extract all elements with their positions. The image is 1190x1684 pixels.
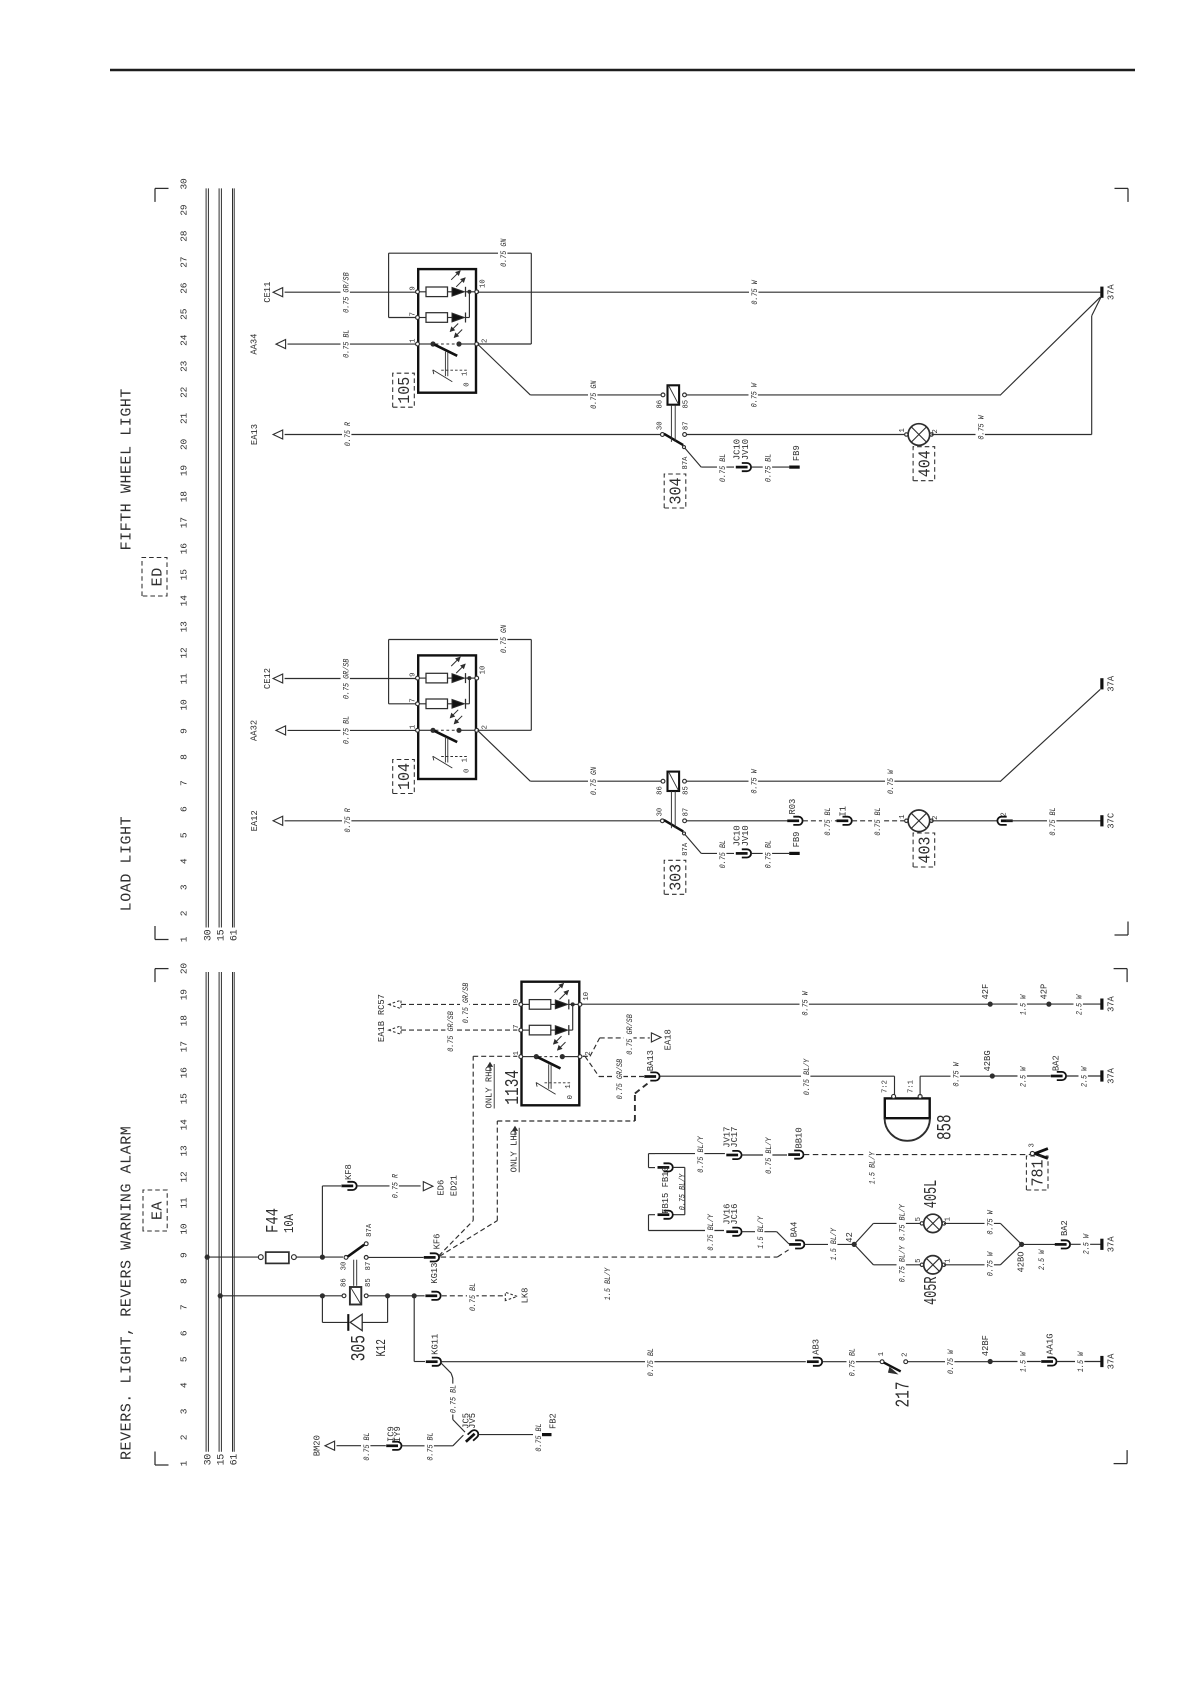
- splice FB9 (thick wire end): [789, 832, 802, 854]
- dashed wire I1 to lamp 403, 0.75 BL: [852, 806, 904, 837]
- svg-text:2: 2: [932, 815, 940, 819]
- svg-text:12: 12: [179, 1171, 190, 1183]
- svg-text:0: 0: [464, 382, 472, 386]
- junction 42F: [981, 984, 993, 1007]
- wire node to connector KF8: [322, 1186, 341, 1257]
- wire 42 to lamp 405R, 0.75 BL/Y: [854, 1244, 920, 1283]
- svg-text:10A: 10A: [282, 1214, 298, 1233]
- svg-text:EA12: EA12: [250, 810, 260, 831]
- svg-text:0.75 R: 0.75 R: [343, 808, 353, 832]
- svg-text:KG13: KG13: [430, 1263, 440, 1284]
- diode of relay 305: [322, 1296, 387, 1331]
- svg-text:EA1B: EA1B: [377, 1021, 387, 1042]
- svg-text:0.75 BL: 0.75 BL: [718, 454, 728, 482]
- svg-text:5: 5: [915, 1258, 923, 1262]
- svg-text:87A: 87A: [366, 1223, 374, 1237]
- svg-text:0.75 BL: 0.75 BL: [362, 1432, 372, 1460]
- svg-text:0.75 W: 0.75 W: [749, 769, 759, 794]
- svg-text:0.75 BL: 0.75 BL: [468, 1283, 478, 1311]
- svg-text:2.5 W: 2.5 W: [1037, 1249, 1047, 1270]
- wire loop pin2 to pin7, 0.75 GN: [389, 624, 532, 731]
- svg-text:KF8: KF8: [344, 1164, 354, 1180]
- svg-text:BA2: BA2: [1052, 1055, 1062, 1071]
- wire 105 pin10 to ground 37A, 0.75 W: [478, 279, 1101, 306]
- wire bus30 to fuse F44: [207, 1256, 258, 1258]
- wire 405R to 42BO, 0.75 W: [944, 1245, 1021, 1278]
- svg-text:25: 25: [179, 308, 190, 320]
- svg-text:JC17: JC17: [730, 1127, 740, 1148]
- svg-text:0.75 W: 0.75 W: [886, 769, 896, 794]
- svg-text:42P: 42P: [1040, 984, 1050, 1000]
- connector AA1G: [1041, 1333, 1056, 1365]
- connector BA2 (405 chain): [1055, 1220, 1070, 1248]
- svg-text:10: 10: [179, 699, 190, 711]
- svg-text:11: 11: [179, 673, 190, 685]
- svg-text:FB2: FB2: [549, 1413, 559, 1429]
- ground 37A (405 chain): [1100, 1239, 1103, 1250]
- svg-text:10: 10: [179, 1223, 190, 1235]
- wire BA2 to ground, 2.5 W: [1066, 1066, 1100, 1089]
- ref box 105: [393, 373, 415, 407]
- wire JC16 to BA4, 1.5 BL/Y: [742, 1215, 789, 1250]
- svg-text:0.75 BL: 0.75 BL: [449, 1385, 459, 1413]
- svg-text:0.75 BL: 0.75 BL: [823, 807, 833, 835]
- svg-text:30: 30: [179, 178, 190, 190]
- svg-text:0.75 R: 0.75 R: [390, 1174, 400, 1198]
- connector JC10 JV10: [733, 439, 752, 471]
- long wire KG11-row to ground 37A, 0.75 BL: [441, 1347, 805, 1378]
- svg-text:1: 1: [899, 428, 907, 432]
- svg-text:0.75 W: 0.75 W: [985, 1210, 995, 1235]
- connector R03: [787, 799, 802, 825]
- continuation arrow EA12: [250, 810, 283, 831]
- connector FB10 with jumper to FB15: [649, 1154, 685, 1215]
- wire horn 858 to 42BG, 0.75 W: [920, 1061, 990, 1095]
- svg-text:0.75 BL/Y: 0.75 BL/Y: [696, 1135, 706, 1172]
- svg-text:11: 11: [179, 1197, 190, 1209]
- svg-text:28: 28: [179, 230, 190, 242]
- svg-text:6: 6: [179, 1330, 190, 1336]
- wire JC17 to BB10, 0.75 BL/Y: [742, 1136, 787, 1175]
- wire 217 to 42BF, 0.75 W: [908, 1349, 988, 1376]
- dashed branch KF6 to LHD path: [440, 1221, 498, 1257]
- svg-text:6: 6: [179, 806, 190, 812]
- svg-text:37A: 37A: [1106, 1067, 1116, 1084]
- dashed wire 1134 pin2 to BA13, 0.75 GR/SB: [583, 1056, 646, 1100]
- connector BA13: [644, 1050, 659, 1081]
- svg-text:29: 29: [179, 204, 190, 216]
- svg-text:37A: 37A: [1106, 675, 1116, 692]
- switch unit 105 (lamp switch): [410, 269, 490, 393]
- connector KG13: [425, 1263, 440, 1300]
- continuation arrow BM20: [313, 1435, 335, 1456]
- svg-text:JC16: JC16: [730, 1204, 740, 1225]
- svg-text:9: 9: [410, 286, 418, 290]
- svg-text:217: 217: [893, 1382, 915, 1408]
- continuation arrow EA18: [651, 1029, 673, 1050]
- svg-text:85: 85: [683, 786, 691, 795]
- svg-text:20: 20: [179, 439, 190, 451]
- svg-text:1: 1: [410, 725, 418, 729]
- ground 37C: [1100, 815, 1103, 826]
- svg-text:2.5 W: 2.5 W: [1018, 1066, 1028, 1087]
- wire 405L to 42BO, 0.75 W: [944, 1209, 1021, 1244]
- svg-text:30: 30: [657, 421, 665, 430]
- svg-text:JV10: JV10: [741, 825, 751, 846]
- svg-text:7: 7: [179, 780, 190, 786]
- svg-text:0: 0: [567, 1095, 575, 1099]
- wire 42P to ground, 2.5 W: [1049, 994, 1101, 1017]
- svg-text:4: 4: [179, 858, 190, 864]
- svg-text:1.5 W: 1.5 W: [1018, 1351, 1028, 1372]
- svg-text:7:2: 7:2: [882, 1080, 890, 1093]
- svg-text:37A: 37A: [1106, 995, 1116, 1012]
- wire into JV17/JC17 from 1.5 BL/Y bus: [649, 1153, 656, 1155]
- svg-text:19: 19: [179, 989, 190, 1001]
- svg-text:LK8: LK8: [521, 1288, 531, 1304]
- svg-text:JV5: JV5: [468, 1413, 478, 1429]
- junction on 85-wire (KG11 branch): [412, 1293, 417, 1298]
- ONLY RHD label: [485, 1063, 495, 1109]
- svg-text:0.75 BL: 0.75 BL: [341, 330, 351, 358]
- svg-text:0.75 BL: 0.75 BL: [341, 716, 351, 744]
- fuse F44 10A: [258, 1208, 298, 1263]
- svg-text:304: 304: [666, 477, 685, 504]
- svg-text:0.75 BL: 0.75 BL: [718, 840, 728, 868]
- junction node below F44: [320, 1255, 325, 1260]
- svg-text:2: 2: [179, 910, 190, 916]
- svg-text:ED21: ED21: [450, 1175, 460, 1196]
- svg-text:FB15 FB10: FB15 FB10: [661, 1166, 671, 1214]
- continuation arrow LK8 (dashed): [505, 1288, 530, 1304]
- svg-text:0.75 BL: 0.75 BL: [646, 1348, 656, 1376]
- svg-text:0.75 GR/SB: 0.75 GR/SB: [446, 1011, 456, 1052]
- svg-text:ONLY LHD: ONLY LHD: [510, 1130, 520, 1172]
- relay304 pin 87 wire to lamp 404: [686, 434, 904, 436]
- svg-text:2: 2: [482, 339, 490, 343]
- wire relay 87 to R03 (load light feed): [686, 820, 793, 822]
- wire lamp 404 to ground 37A, 0.75 W: [932, 298, 1101, 442]
- svg-text:14: 14: [179, 1119, 190, 1131]
- connector JC10 JV10: [733, 825, 752, 857]
- wire JC5 to FB2, 0.75 BL: [479, 1422, 544, 1453]
- svg-text:5: 5: [179, 832, 190, 838]
- dashed LHD path to BA13: [497, 1081, 650, 1220]
- relay 305 K12 contacts 30/87/87A: [340, 1223, 373, 1270]
- relay 304 contacts 30/87/87A: [657, 405, 691, 470]
- svg-text:KF6: KF6: [433, 1234, 443, 1250]
- svg-text:0.75 BL/Y: 0.75 BL/Y: [764, 1137, 774, 1174]
- svg-text:0.75 W: 0.75 W: [749, 382, 759, 407]
- svg-text:1: 1: [899, 814, 907, 818]
- svg-text:BA13: BA13: [646, 1050, 656, 1071]
- svg-text:0.75 BL/Y: 0.75 BL/Y: [897, 1245, 907, 1282]
- svg-text:FB9: FB9: [792, 832, 802, 848]
- switch unit 104 (lamp switch): [410, 655, 490, 779]
- junction on coil-86 wire (diode branch): [320, 1293, 325, 1298]
- svg-text:0.75 W: 0.75 W: [946, 1349, 956, 1374]
- svg-text:104: 104: [395, 763, 414, 790]
- ground 37A (bottom row): [1100, 1356, 1103, 1367]
- svg-text:0.75 GR/SB: 0.75 GR/SB: [341, 272, 351, 313]
- svg-text:404: 404: [915, 450, 934, 477]
- wire 42BG to BA2, 2.5 W: [992, 1066, 1050, 1089]
- svg-text:10: 10: [583, 992, 591, 1001]
- wire AB3 to switch 217, 0.75 BL: [823, 1347, 881, 1378]
- wire pin2 to relay coil 86, 0.75 GN: [479, 345, 662, 410]
- svg-text:0.75 GN: 0.75 GN: [589, 767, 599, 795]
- dashed wire BB10 to 781 pin3, 1.5 BL/Y: [804, 1151, 1030, 1186]
- svg-text:ED: ED: [150, 567, 167, 586]
- svg-text:87: 87: [365, 1262, 373, 1271]
- splice FB9 (thick wire end): [789, 445, 802, 467]
- svg-text:1.5 W: 1.5 W: [1076, 1351, 1086, 1372]
- svg-text:781: 781: [1029, 1159, 1048, 1186]
- svg-text:42: 42: [845, 1232, 855, 1243]
- svg-text:37A: 37A: [1106, 1236, 1116, 1253]
- svg-text:24: 24: [179, 334, 190, 346]
- svg-text:2: 2: [179, 1434, 190, 1440]
- svg-text:86: 86: [340, 1278, 348, 1287]
- svg-text:AA32: AA32: [250, 720, 260, 741]
- svg-text:37C: 37C: [1106, 813, 1116, 829]
- wire relay 85 down, 0.75 W to ground 37A: [686, 768, 1000, 795]
- connector KF6: [424, 1234, 443, 1262]
- frame ED corner brackets: [155, 188, 1128, 939]
- svg-text:4: 4: [179, 1382, 190, 1388]
- svg-text:8: 8: [179, 754, 190, 760]
- svg-text:0.75 BL/Y: 0.75 BL/Y: [897, 1203, 907, 1240]
- svg-text:0.75 BL: 0.75 BL: [534, 1423, 544, 1451]
- svg-text:1: 1: [179, 1460, 190, 1466]
- svg-text:0.75 BL: 0.75 BL: [764, 454, 774, 482]
- svg-text:7: 7: [179, 1305, 190, 1311]
- svg-text:27: 27: [179, 257, 190, 268]
- junction 42: [845, 1232, 857, 1247]
- svg-text:2.5 W: 2.5 W: [1082, 1233, 1092, 1254]
- svg-text:10: 10: [480, 279, 488, 288]
- svg-text:2.5 W: 2.5 W: [1079, 1066, 1089, 1087]
- label box EA: [143, 1190, 167, 1231]
- svg-text:0.75 BL: 0.75 BL: [847, 1348, 857, 1376]
- wire CE11 to pin 9, 0.75 GR/SB: [285, 271, 417, 314]
- lamp 405L (reversing lamp left): [915, 1180, 953, 1233]
- svg-text:3: 3: [179, 1408, 190, 1414]
- svg-text:BA2: BA2: [1060, 1220, 1070, 1236]
- wire bus15 to relay coil 86: [220, 1295, 342, 1297]
- svg-text:19: 19: [179, 465, 190, 477]
- svg-text:17: 17: [179, 517, 190, 528]
- connector KF8: [341, 1164, 356, 1190]
- svg-text:AA1G: AA1G: [1045, 1333, 1055, 1354]
- svg-text:JV10: JV10: [741, 439, 751, 460]
- svg-text:0.75 GR/SB: 0.75 GR/SB: [461, 983, 471, 1024]
- wire JC10 to FB9, 0.75 BL: [751, 839, 789, 870]
- dashed wire RC57 to 1134 pin 9, 0.75 GR/SB: [401, 981, 517, 1024]
- junction 42BO: [1017, 1242, 1027, 1273]
- svg-text:K12: K12: [375, 1339, 390, 1357]
- svg-text:15: 15: [179, 569, 190, 581]
- wire JC10 to FB9, 0.75 BL: [751, 453, 789, 484]
- svg-text:EA: EA: [150, 1201, 167, 1220]
- wire relay87 to connector KF6: [368, 1256, 424, 1258]
- svg-text:403: 403: [915, 837, 934, 864]
- wire relay 87A to JC10, 0.75 BL: [685, 448, 734, 483]
- svg-text:2: 2: [932, 429, 940, 433]
- wire CE12 to pin 9, 0.75 GR/SB: [285, 657, 417, 700]
- ref box 403: [913, 833, 935, 867]
- svg-text:16: 16: [179, 543, 190, 555]
- svg-text:RC57: RC57: [377, 994, 387, 1015]
- svg-text:0.75 W: 0.75 W: [985, 1251, 995, 1276]
- wire AA32 to pin 1, 0.75 BL: [288, 715, 418, 746]
- svg-text:5: 5: [179, 1356, 190, 1362]
- ref box 303: [664, 860, 686, 894]
- svg-text:2: 2: [1001, 812, 1009, 816]
- svg-text:I1: I1: [839, 806, 849, 817]
- svg-text:405L: 405L: [921, 1180, 942, 1209]
- svg-text:87A: 87A: [682, 842, 690, 856]
- svg-text:10: 10: [480, 666, 488, 675]
- svg-text:87: 87: [683, 421, 691, 430]
- svg-text:1.5 BL/Y: 1.5 BL/Y: [867, 1151, 877, 1184]
- continuation arrow AA32: [250, 720, 286, 741]
- main dashed wire 1.5 BL/Y from KF6 to BA4: [441, 1250, 789, 1300]
- svg-text:0.75 BL/Y: 0.75 BL/Y: [706, 1213, 716, 1250]
- svg-text:0.75 BL: 0.75 BL: [764, 840, 774, 868]
- svg-text:3: 3: [1029, 1143, 1037, 1147]
- svg-text:0.75 W: 0.75 W: [976, 415, 986, 440]
- svg-text:13: 13: [179, 621, 190, 633]
- svg-text:ED6: ED6: [437, 1180, 447, 1196]
- wire BA4 to junction 42, 1.5 BL/Y: [805, 1227, 853, 1262]
- svg-text:1: 1: [513, 1051, 521, 1055]
- svg-text:1: 1: [945, 1258, 953, 1262]
- wire 42F to 42P, 1.5 W: [990, 994, 1047, 1017]
- svg-text:15: 15: [216, 929, 227, 941]
- connector I1: [837, 806, 852, 825]
- splice FB2 (thick wire end): [542, 1413, 559, 1434]
- svg-text:1.5 BL/Y: 1.5 BL/Y: [829, 1227, 839, 1260]
- wire AA34 to pin 1, 0.75 BL: [288, 328, 418, 359]
- svg-text:2: 2: [482, 725, 490, 729]
- svg-text:14: 14: [179, 595, 190, 607]
- svg-text:0.75 GR/SB: 0.75 GR/SB: [615, 1059, 625, 1100]
- connector JC5 JV5: [461, 1413, 480, 1445]
- wire 42 to lamp 405L, 0.75 BL/Y: [854, 1203, 920, 1244]
- connector BB10: [788, 1127, 804, 1158]
- wire KF8 to ED6 arrow, 0.75 R: [357, 1173, 420, 1200]
- svg-text:8: 8: [179, 1278, 190, 1284]
- svg-text:0.75 BL/Y: 0.75 BL/Y: [677, 1173, 687, 1210]
- svg-text:IY9: IY9: [393, 1426, 403, 1442]
- svg-text:405R: 405R: [921, 1277, 942, 1306]
- svg-text:BA4: BA4: [790, 1222, 800, 1238]
- wire relay304-85 diagonal to ground 37A: [1000, 297, 1100, 395]
- switch 217 (reversing light switch): [878, 1352, 915, 1408]
- switch unit 1134 (reverse gear switch): [502, 982, 593, 1106]
- svg-text:FB9: FB9: [792, 445, 802, 461]
- grid numbers frame ED 1-30: [179, 178, 190, 942]
- connector IC9 IY9: [386, 1426, 403, 1450]
- label box ED: [142, 558, 167, 597]
- wire pin2 to relay coil 86, 0.75 GN: [479, 731, 662, 796]
- svg-text:85: 85: [365, 1278, 373, 1287]
- ref box 781: [1026, 1156, 1048, 1190]
- svg-text:0: 0: [464, 769, 472, 773]
- svg-text:REVERS. LIGHT, REVERS WARNING: REVERS. LIGHT, REVERS WARNING ALARM: [119, 1126, 136, 1460]
- svg-text:0.75 BL/Y: 0.75 BL/Y: [802, 1058, 812, 1095]
- svg-text:1: 1: [410, 338, 418, 342]
- svg-text:12: 12: [179, 647, 190, 659]
- svg-text:0.75 R: 0.75 R: [343, 422, 353, 446]
- svg-text:42F: 42F: [981, 984, 991, 1000]
- svg-text:0.75 W: 0.75 W: [750, 280, 760, 305]
- continuation arrow AA34: [250, 334, 286, 355]
- svg-text:42BO: 42BO: [1017, 1251, 1027, 1272]
- ground 37A (LOAD): [1100, 678, 1103, 689]
- ONLY LHD label: [510, 1127, 520, 1173]
- svg-text:F44: F44: [264, 1208, 284, 1233]
- dashed continuation arrow EA1B: [377, 1021, 401, 1042]
- svg-text:1.5 BL/Y: 1.5 BL/Y: [603, 1267, 613, 1300]
- page header rule: [110, 69, 1135, 72]
- svg-text:CE12: CE12: [263, 668, 273, 689]
- svg-text:0.75 GN: 0.75 GN: [589, 381, 599, 409]
- ground 37A (FIFTH common): [1100, 287, 1103, 298]
- continuation arrow CE12: [263, 668, 283, 689]
- svg-text:87: 87: [683, 808, 691, 817]
- svg-text:1: 1: [945, 1217, 953, 1221]
- svg-text:0.75 W: 0.75 W: [951, 1062, 961, 1087]
- connector AB3: [807, 1339, 822, 1366]
- connector JV17 JC17: [655, 1127, 742, 1174]
- svg-text:37A: 37A: [1106, 284, 1116, 301]
- svg-text:61: 61: [230, 1454, 241, 1466]
- svg-text:1: 1: [878, 1352, 886, 1356]
- svg-text:7: 7: [513, 1025, 521, 1029]
- svg-text:37A: 37A: [1106, 1353, 1116, 1370]
- svg-text:303: 303: [666, 864, 685, 891]
- junction on bus 15 (relay coil feed): [218, 1293, 223, 1298]
- svg-text:30: 30: [203, 1454, 214, 1466]
- wire connector 2 to ground 37C, 0.75 BL: [1006, 806, 1101, 837]
- svg-text:0.75 BL: 0.75 BL: [873, 807, 883, 835]
- svg-text:0.75 W: 0.75 W: [800, 991, 810, 1016]
- svg-text:16: 16: [179, 1067, 190, 1079]
- svg-text:30: 30: [340, 1262, 348, 1271]
- wire relay 87A to JC10, 0.75 BL: [685, 834, 734, 869]
- continuation arrow ED6 ED21: [423, 1175, 459, 1196]
- svg-text:858: 858: [935, 1115, 958, 1141]
- wire relay 85 down, 0.75 W to ground 37A: [686, 382, 1000, 409]
- svg-text:FIFTH WHEEL LIGHT: FIFTH WHEEL LIGHT: [119, 388, 136, 550]
- svg-text:3: 3: [179, 884, 190, 890]
- svg-text:1.5 W: 1.5 W: [1018, 994, 1028, 1015]
- svg-text:9: 9: [410, 673, 418, 677]
- svg-text:17: 17: [179, 1041, 190, 1052]
- ground 37A (858 chain): [1100, 1070, 1103, 1081]
- wire loop pin2 to pin7, 0.75 GN: [389, 237, 532, 344]
- wire relay303-85 diagonal to ground 37A: [885, 689, 1100, 795]
- wire lamp 403 to connector 2, 0.75 BL: [932, 820, 998, 822]
- svg-text:42BF: 42BF: [981, 1335, 991, 1356]
- svg-text:61: 61: [230, 929, 241, 941]
- bus bars 30/15/61 frame ED: [203, 188, 240, 941]
- connector FB15: [649, 1166, 725, 1230]
- wire EA13 to relay pin 30, 0.75 R: [285, 421, 661, 448]
- junction 42P: [1040, 984, 1052, 1007]
